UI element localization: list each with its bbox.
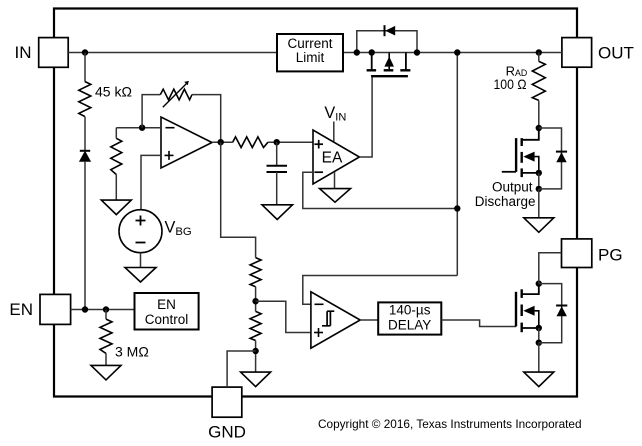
svg-text:Discharge: Discharge: [475, 194, 536, 209]
pin EN: [9, 294, 70, 324]
wire EA inverting feedback: [303, 172, 458, 208]
wire output feedback vertical: [456, 53, 458, 276]
wire Q3 body diode branch: [539, 284, 562, 343]
capacitor C1: [267, 142, 288, 205]
node feedback rail: [454, 49, 460, 55]
ground (3 MOhm): [91, 365, 121, 380]
wire divider tap to comparator +: [256, 301, 311, 332]
diode body (pass FET): [385, 25, 396, 36]
wire EA1 inverting input: [116, 127, 161, 129]
wire DELAY to PG gate: [441, 320, 516, 327]
wire R2 to ground node: [255, 341, 257, 373]
node RC: [274, 139, 280, 145]
block Current Limit: [277, 34, 343, 71]
svg-text:IN: IN: [15, 43, 32, 62]
node divider bottom: [252, 348, 258, 354]
resistor divider R2: [250, 311, 261, 340]
wire body diode branch: [357, 31, 417, 53]
diode body (Q2): [556, 152, 567, 163]
wire Q2 body diode branch: [539, 128, 562, 189]
wire EA output to pass gate: [359, 76, 372, 157]
wire comparator feedback: [303, 276, 458, 305]
svg-text:Current: Current: [287, 36, 332, 51]
svg-text:EA: EA: [322, 150, 343, 167]
diode D1 (EN-IN): [80, 117, 91, 310]
svg-text:Output: Output: [492, 180, 533, 195]
svg-text:DELAY: DELAY: [388, 318, 431, 333]
source contact: [405, 53, 407, 71]
wire EA1 + input to VBG: [141, 155, 161, 209]
pass transistor Q1 (PMOS): [367, 53, 411, 77]
resistor 45 kOhm: [79, 53, 132, 117]
node EN tap 3M: [103, 306, 109, 312]
node divider mid: [252, 298, 258, 304]
body arrow: [388, 53, 390, 71]
wire EN rail: [71, 309, 135, 311]
node EA1 inverting node: [139, 125, 145, 131]
op-amp EA (error amplifier): [313, 130, 359, 184]
ground (VBG): [125, 253, 156, 282]
pin PG: [562, 239, 623, 268]
block EN Control: [135, 293, 199, 330]
voltage source VBG: [119, 210, 192, 253]
wire EA1 to divider: [221, 142, 256, 257]
wire comparator output: [360, 319, 378, 321]
comparator U3: [311, 292, 360, 348]
resistor RAD: [494, 49, 546, 128]
wire rail Current Limit to OUT: [343, 52, 562, 54]
node EA1 output: [212, 139, 233, 145]
node body diode left: [354, 49, 360, 55]
svg-text:Limit: Limit: [296, 50, 325, 65]
svg-text:EN: EN: [157, 297, 176, 312]
ground (capacitor): [262, 205, 293, 220]
gate bar: [371, 75, 408, 77]
svg-text:45 kΩ: 45 kΩ: [95, 84, 132, 100]
wire GND pin to divider bottom: [227, 351, 256, 387]
wire R1 to node: [255, 287, 257, 312]
transistor Q2 output discharge (NMOS): [502, 125, 542, 192]
svg-text:PG: PG: [598, 246, 623, 265]
wire PG pin to Q3 drain: [539, 253, 562, 284]
variable resistor (trim): [160, 81, 192, 107]
ground (Q2): [524, 189, 554, 232]
pin OUT: [562, 38, 634, 68]
pin GND: [208, 387, 246, 441]
pin IN: [15, 38, 69, 68]
diode body (Q3): [556, 306, 567, 317]
ground (Q3): [524, 343, 554, 387]
resistor 3 MOhm: [100, 310, 149, 366]
resistor RC filter series: [233, 137, 268, 148]
drain contact: [371, 53, 373, 71]
wire VIN supply lead: [333, 122, 335, 143]
resistor to ground at EA1 input: [111, 128, 122, 200]
svg-text:EN: EN: [9, 300, 33, 319]
svg-text:Control: Control: [145, 312, 189, 327]
channel dashes: [367, 69, 377, 71]
border frame: [54, 9, 577, 397]
wire variable resistor to EA1 output: [192, 95, 221, 143]
svg-text:140-µs: 140-µs: [389, 303, 431, 318]
wire main input rail IN to Current Limit: [68, 52, 277, 54]
svg-text:Copyright © 2016, Texas Instru: Copyright © 2016, Texas Instruments Inco…: [318, 417, 582, 431]
node rail tap at IN: [82, 49, 88, 55]
ground (EA1 input resistor): [101, 200, 131, 215]
transistor Q3 PG pull-down (NMOS): [516, 280, 542, 346]
op-amp EA1 (bandgap amp): [161, 117, 212, 168]
wire feedback branch up: [142, 95, 160, 128]
block 140-us DELAY: [378, 302, 441, 334]
node EA feedback tap: [454, 205, 460, 211]
ground (EA): [320, 172, 351, 202]
node EN tap diode chain: [82, 306, 88, 312]
svg-text:OUT: OUT: [598, 44, 634, 63]
ground (divider): [241, 372, 271, 387]
node pass FET drain: [369, 49, 375, 55]
svg-text:3 MΩ: 3 MΩ: [115, 344, 149, 360]
node body diode right: [414, 49, 420, 55]
wire RC node to EA +: [268, 141, 313, 143]
svg-text:100 Ω: 100 Ω: [494, 76, 527, 92]
resistor divider R1: [250, 258, 261, 287]
svg-text:GND: GND: [208, 422, 246, 441]
